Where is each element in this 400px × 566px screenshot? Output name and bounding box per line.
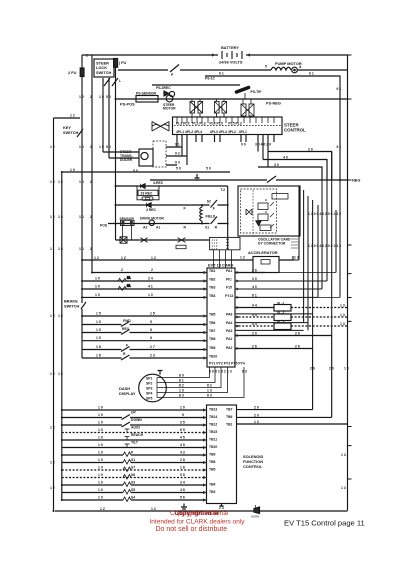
svg-text:5: 5	[265, 65, 267, 69]
svg-text:SP1: SP1	[146, 377, 153, 381]
svg-text:TB6: TB6	[209, 321, 216, 325]
svg-text:DY CONNECTOR: DY CONNECTOR	[258, 242, 286, 246]
svg-text:5 0: 5 0	[133, 169, 138, 173]
svg-text:2: 2	[121, 268, 123, 272]
svg-text:1 3: 1 3	[207, 389, 212, 393]
svg-text:TB1: TB1	[209, 269, 216, 273]
svg-text:1A: 1A	[127, 276, 130, 280]
svg-text:2 FU: 2 FU	[68, 70, 77, 75]
svg-text:PS-NEG: PS-NEG	[266, 101, 281, 106]
svg-text:R: R	[123, 352, 126, 356]
svg-text:2 8: 2 8	[180, 458, 185, 462]
svg-text:TB12: TB12	[209, 423, 217, 427]
svg-text:CONTROL: CONTROL	[284, 128, 306, 133]
svg-text:FWD: FWD	[123, 319, 131, 323]
svg-text:4 1 5: 4 1 5	[212, 247, 218, 251]
svg-text:1 2: 1 2	[50, 461, 55, 465]
svg-text:PS-SENSOR: PS-SENSOR	[136, 92, 157, 96]
svg-text:1 0: 1 0	[98, 443, 103, 447]
svg-text:DOWN: DOWN	[131, 418, 142, 422]
svg-text:SWITCH: SWITCH	[63, 130, 79, 135]
svg-text:PA1: PA1	[226, 269, 232, 273]
svg-text:TB10: TB10	[209, 445, 217, 449]
svg-text:2 7: 2 7	[150, 345, 155, 349]
svg-text:4 5: 4 5	[180, 436, 185, 440]
svg-text:PY1 PY2 PY3 PY5 PY4: PY1 PY2 PY3 PY5 PY4	[209, 362, 245, 366]
svg-text:TB4: TB4	[209, 294, 216, 298]
svg-text:8 1: 8 1	[179, 379, 184, 383]
svg-text:TB2: TB2	[209, 278, 216, 282]
svg-text:| FU: | FU	[119, 60, 127, 65]
svg-text:2 0: 2 0	[254, 413, 259, 417]
svg-text:8: 8	[150, 336, 152, 340]
svg-text:F: F	[213, 207, 215, 211]
svg-text:CONTROL: CONTROL	[243, 464, 263, 469]
svg-text:1 2: 1 2	[79, 95, 84, 99]
svg-text:8 1: 8 1	[215, 370, 220, 374]
svg-text:4 5: 4 5	[180, 443, 185, 447]
svg-text:A2: A2	[143, 226, 147, 230]
svg-text:8 0: 8 0	[179, 374, 184, 378]
svg-text:1 0: 1 0	[98, 473, 103, 477]
svg-text:2 6: 2 6	[252, 345, 257, 349]
svg-text:S3: S3	[131, 481, 135, 485]
svg-text:1 0: 1 0	[95, 293, 100, 297]
svg-text:S5: S5	[131, 488, 135, 492]
svg-text:1 3: 1 3	[340, 313, 345, 317]
svg-text:TB1: TB1	[226, 423, 233, 427]
svg-text:1 3: 1 3	[341, 453, 346, 457]
svg-text:5: 5	[150, 320, 152, 324]
svg-text:1 3: 1 3	[254, 420, 259, 424]
svg-text:1 2: 1 2	[50, 215, 55, 219]
svg-text:9 2: 9 2	[175, 152, 180, 156]
svg-text:1: 1	[50, 247, 52, 251]
svg-text:1 0: 1 0	[95, 277, 100, 281]
svg-text:TB9: TB9	[209, 453, 216, 457]
svg-text:REACH: REACH	[131, 433, 144, 437]
svg-text:5 0: 5 0	[106, 95, 111, 99]
svg-text:2 0: 2 0	[329, 367, 334, 371]
svg-text:1 2: 1 2	[151, 256, 156, 260]
svg-text:8: 8	[150, 328, 152, 332]
svg-text:1 3 3 0 4 0 2 0 6 1 1 3: 1 3 3 0 4 0 2 0 6 1 1 3	[308, 212, 341, 216]
svg-text:TB5: TB5	[209, 313, 216, 317]
svg-text:TB7: TB7	[226, 408, 233, 412]
svg-text:PS-1C: PS-1C	[205, 77, 216, 81]
svg-text:1 3: 1 3	[227, 370, 232, 374]
svg-text:1 0: 1 0	[98, 458, 103, 462]
svg-text:BATTERY: BATTERY	[221, 45, 239, 50]
svg-text:2 6: 2 6	[254, 406, 259, 410]
svg-text:PS-3REC: PS-3REC	[156, 86, 171, 90]
svg-text:TB7: TB7	[209, 329, 216, 333]
svg-text:1 0: 1 0	[95, 285, 100, 289]
svg-text:5 6: 5 6	[180, 496, 185, 500]
svg-text:S1: S1	[205, 225, 209, 229]
svg-text:5 0: 5 0	[206, 167, 211, 171]
svg-text:F: F	[184, 207, 186, 211]
svg-text:1 0: 1 0	[58, 215, 63, 219]
svg-text:6 1: 6 1	[337, 87, 342, 91]
svg-text:5 4: 5 4	[252, 313, 257, 317]
svg-text:TB10: TB10	[209, 355, 217, 359]
svg-text:1 2: 1 2	[240, 256, 245, 260]
svg-text:23 REC: 23 REC	[141, 192, 153, 196]
svg-text:8 3: 8 3	[242, 370, 247, 374]
svg-text:2: 2	[151, 268, 153, 272]
svg-text:1 5: 1 5	[96, 312, 101, 316]
svg-text:DUCER: DUCER	[120, 158, 133, 162]
svg-text:TILT: TILT	[131, 441, 139, 445]
svg-text:1 0: 1 0	[58, 314, 63, 318]
svg-text:P: P	[131, 451, 134, 455]
svg-text:4 3: 4 3	[180, 451, 185, 455]
svg-text:DISPLAY: DISPLAY	[119, 391, 136, 396]
svg-text:4 8: 4 8	[180, 488, 185, 492]
svg-text:2 3: 2 3	[150, 354, 155, 358]
svg-text:2 6: 2 6	[310, 367, 315, 371]
svg-text:9 0: 9 0	[241, 143, 246, 147]
svg-text:1 2: 1 2	[50, 145, 55, 149]
svg-text:REV: REV	[122, 327, 130, 331]
svg-text:SL-2: SL-2	[277, 311, 284, 315]
svg-text:1 0: 1 0	[98, 413, 103, 417]
svg-text:TB4: TB4	[209, 483, 216, 487]
svg-text:2 0: 2 0	[308, 148, 313, 152]
svg-text:1 2: 1 2	[70, 114, 75, 118]
svg-text:1 3: 1 3	[344, 367, 349, 371]
svg-text:1 0: 1 0	[79, 215, 84, 219]
svg-text:TB5: TB5	[209, 468, 216, 472]
svg-text:TB9: TB9	[209, 346, 216, 350]
svg-text:2: 2	[90, 247, 92, 251]
svg-text:Copyrighted M: Copyrighted M	[175, 510, 219, 517]
svg-text:1 2: 1 2	[100, 507, 105, 511]
svg-text:2: 2	[90, 145, 92, 149]
svg-text:6 1: 6 1	[252, 293, 257, 297]
svg-text:1 0: 1 0	[79, 247, 84, 251]
svg-text:5 4: 5 4	[252, 322, 257, 326]
svg-text:SENSOR: SENSOR	[120, 217, 135, 221]
svg-text:1 0: 1 0	[148, 293, 153, 297]
svg-text:6 1: 6 1	[337, 145, 342, 149]
svg-text:4 0: 4 0	[283, 156, 288, 160]
svg-text:SP2: SP2	[146, 382, 153, 386]
svg-text:3 5: 3 5	[180, 421, 185, 425]
svg-text:9 1: 9 1	[175, 143, 180, 147]
svg-text:1 0: 1 0	[98, 451, 103, 455]
svg-text:S1: S1	[131, 458, 135, 462]
svg-text:Intended for CLARK dealers onl: Intended for CLARK dealers only	[150, 519, 246, 526]
svg-text:1 0: 1 0	[98, 466, 103, 470]
svg-text:TB11: TB11	[209, 438, 217, 442]
svg-text:1 0: 1 0	[98, 481, 103, 485]
svg-text:PA2: PA2	[226, 337, 232, 341]
svg-text:3 0: 3 0	[274, 163, 279, 167]
svg-text:1 3: 1 3	[340, 322, 345, 326]
svg-text:1 2: 1 2	[50, 372, 55, 376]
svg-text:FIELD: FIELD	[206, 214, 216, 218]
svg-text:TB8: TB8	[209, 337, 216, 341]
svg-text:1 3: 1 3	[294, 256, 299, 260]
svg-text:8 3: 8 3	[179, 394, 184, 398]
svg-text:24/36 VOLTS: 24/36 VOLTS	[219, 60, 243, 65]
svg-text:SP5: SP5	[146, 397, 153, 401]
svg-text:1 2: 1 2	[50, 426, 55, 430]
svg-text:POS: POS	[100, 223, 108, 227]
svg-text:2 4: 2 4	[148, 277, 153, 281]
svg-text:FY13: FY13	[225, 294, 233, 298]
svg-text:1 0: 1 0	[58, 180, 63, 184]
svg-text:TB14: TB14	[209, 415, 217, 419]
svg-text:4 4: 4 4	[252, 304, 257, 308]
svg-text:9 3: 9 3	[175, 161, 180, 165]
svg-text:2: 2	[90, 95, 92, 99]
svg-text:PL3 PL3 PL1 PL3 PL4 PL3: PL3 PL3 PL1 PL3 PL4 PL3 PL5 PL3	[176, 122, 242, 126]
svg-text:1 0: 1 0	[58, 372, 63, 376]
svg-text:2: 2	[90, 215, 92, 219]
svg-text:6 5: 6 5	[180, 428, 185, 432]
svg-text:SP4: SP4	[146, 392, 153, 396]
svg-text:2 6: 2 6	[252, 269, 257, 273]
svg-text:8 2: 8 2	[207, 384, 212, 388]
svg-text:1 2: 1 2	[151, 507, 156, 511]
svg-text:HORN: HORN	[251, 515, 259, 519]
svg-text:5 0: 5 0	[106, 145, 111, 149]
svg-text:1 2: 1 2	[50, 180, 55, 184]
svg-text:4 1: 4 1	[148, 285, 153, 289]
svg-text:1 0: 1 0	[70, 168, 75, 172]
svg-text:1 0: 1 0	[180, 406, 185, 410]
svg-text:3 0 4 0 2 0: 3 0 4 0 2 0	[255, 143, 271, 147]
svg-text:6 1: 6 1	[309, 72, 314, 76]
svg-text:1 0: 1 0	[98, 496, 103, 500]
svg-text:PS-TIP: PS-TIP	[251, 90, 263, 94]
svg-text:PUMP MOTOR: PUMP MOTOR	[275, 61, 302, 66]
svg-text:8 2: 8 2	[221, 370, 226, 374]
svg-text:PIC: PIC	[226, 278, 232, 282]
svg-text:TB13: TB13	[209, 408, 217, 412]
svg-text:F15: F15	[226, 286, 232, 290]
svg-text:3 4: 3 4	[180, 481, 185, 485]
svg-text:2 0: 2 0	[252, 332, 257, 336]
svg-text:SL-3: SL-3	[277, 320, 284, 324]
svg-text:SWITCH: SWITCH	[96, 70, 112, 75]
svg-text:1 5: 1 5	[96, 336, 101, 340]
svg-text:1 0: 1 0	[98, 421, 103, 425]
svg-text:S2: S2	[207, 200, 211, 204]
svg-text:TB15: TB15	[209, 430, 217, 434]
svg-text:SWITCH: SWITCH	[64, 304, 80, 309]
svg-text:S7: S7	[131, 466, 135, 470]
svg-text:1 8: 1 8	[180, 466, 185, 470]
svg-text:L: L	[119, 79, 121, 83]
svg-text:6 1: 6 1	[219, 72, 224, 76]
svg-text:AUX2: AUX2	[131, 426, 140, 430]
svg-text:1 2: 1 2	[50, 314, 55, 318]
svg-text:5 0: 5 0	[176, 167, 181, 171]
svg-text:4PL1 4PL2 4PL4 4PL3 4PL: 4PL1 4PL2 4PL4 4PL3 4PL4 4PL2 4PL1	[176, 130, 247, 134]
svg-text:1 3: 1 3	[341, 486, 346, 490]
svg-text:EV T15 Control page 11: EV T15 Control page 11	[284, 519, 365, 528]
svg-text:1 3: 1 3	[179, 389, 184, 393]
svg-text:DRIVE MOTOR: DRIVE MOTOR	[140, 216, 164, 220]
svg-text:4 REC: 4 REC	[146, 208, 157, 212]
svg-text:R: R	[184, 225, 187, 229]
svg-text:1 5: 1 5	[150, 312, 155, 316]
svg-text:8 0: 8 0	[209, 370, 214, 374]
svg-text:1 0: 1 0	[99, 145, 104, 149]
svg-text:1A: 1A	[127, 284, 130, 288]
svg-text:T.2: T.2	[221, 188, 226, 192]
svg-text:PA3: PA3	[226, 329, 232, 333]
svg-text:TB6: TB6	[226, 415, 233, 419]
svg-text:4 0: 4 0	[252, 285, 257, 289]
svg-text:TB3: TB3	[209, 286, 216, 290]
svg-text:ACCELERATOR: ACCELERATOR	[248, 250, 278, 255]
svg-text:SP3: SP3	[146, 387, 153, 391]
svg-text:2: 2	[86, 54, 88, 58]
svg-text:3 0: 3 0	[252, 277, 257, 281]
svg-text:5: 5	[182, 413, 184, 417]
svg-text:EVT 15 CARD: EVT 15 CARD	[208, 263, 233, 268]
svg-text:UP: UP	[131, 411, 136, 415]
svg-text:1 3 3 0 4 0 2 0 6 1 1 3: 1 3 3 0 4 0 2 0 6 1 1 3	[308, 244, 341, 248]
svg-text:8 3: 8 3	[207, 394, 212, 398]
svg-text:1 2: 1 2	[121, 256, 126, 260]
svg-text:2 0: 2 0	[295, 332, 300, 336]
svg-text:1 0: 1 0	[79, 145, 84, 149]
svg-text:SL-1: SL-1	[277, 302, 284, 306]
svg-text:NEG: NEG	[352, 178, 360, 183]
svg-text:1 8: 1 8	[96, 354, 101, 358]
svg-text:P: P	[171, 73, 174, 77]
svg-text:1 0: 1 0	[98, 406, 103, 410]
svg-text:2: 2	[90, 180, 92, 184]
svg-text:2 6: 2 6	[295, 345, 300, 349]
svg-text:1 0: 1 0	[98, 488, 103, 492]
svg-text:1 2: 1 2	[50, 486, 55, 490]
svg-text:8 2: 8 2	[179, 384, 184, 388]
svg-text:TB3: TB3	[209, 490, 216, 494]
svg-text:MOTOR: MOTOR	[163, 107, 176, 111]
svg-text:R: R	[215, 225, 218, 229]
svg-text:1 0: 1 0	[98, 436, 103, 440]
svg-text:PA2: PA2	[226, 346, 232, 350]
svg-text:1 5: 1 5	[96, 320, 101, 324]
svg-text:S6: S6	[131, 473, 135, 477]
svg-text:S4: S4	[131, 496, 135, 500]
svg-text:1 0: 1 0	[79, 180, 84, 184]
svg-text:PA4: PA4	[226, 321, 232, 325]
svg-text:1 0: 1 0	[99, 95, 104, 99]
svg-text:1 8: 1 8	[96, 345, 101, 349]
svg-text:PS-POS: PS-POS	[120, 102, 135, 107]
svg-text:A1: A1	[156, 226, 160, 230]
svg-text:1 0: 1 0	[98, 428, 103, 432]
svg-text:1 0: 1 0	[58, 247, 63, 251]
svg-text:TB8: TB8	[209, 460, 216, 464]
svg-text:1 3: 1 3	[340, 304, 345, 308]
svg-text:3-REC: 3-REC	[153, 181, 164, 185]
svg-text:1 2: 1 2	[94, 256, 99, 260]
svg-text:5 8: 5 8	[180, 473, 185, 477]
svg-text:PA6: PA6	[226, 313, 232, 317]
svg-text:1 5: 1 5	[96, 328, 101, 332]
svg-text:F: F	[126, 344, 128, 348]
svg-text:Do not sell or distribute: Do not sell or distribute	[156, 526, 228, 533]
